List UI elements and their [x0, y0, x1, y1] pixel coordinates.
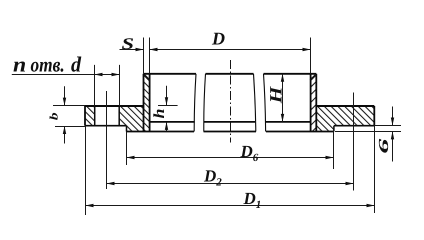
hub top-left corner tick: [144, 75, 150, 81]
break line 1a: [194, 74, 196, 132]
extension lines D1: [86, 126, 375, 215]
svg-text:S: S: [122, 36, 135, 53]
extension lines S/D above hub: [144, 38, 311, 74]
center line (axis): [230, 60, 232, 143]
svg-text:отв.: отв.: [31, 53, 65, 76]
extension lines b left: [53, 106, 85, 127]
break line 2a: [254, 74, 256, 132]
dimension line S: [120, 49, 144, 51]
wire: left boss step: [126, 126, 128, 132]
wire: rim bottom surfaces: [85, 125, 374, 127]
break line 1b: [204, 74, 206, 132]
hatched section: right flange + boss: [316, 106, 374, 131]
svg-text:D: D: [211, 29, 225, 49]
svg-text:n: n: [13, 53, 26, 77]
svg-text:6: 6: [377, 138, 392, 154]
break line 2b: [264, 74, 266, 132]
bolt hole axis left (D2 extension): [106, 91, 108, 189]
wire: hub left outer wall: [143, 74, 145, 132]
dimension line b: [64, 86, 66, 143]
dimension line D: [150, 49, 311, 51]
dimension line H: [282, 74, 284, 122]
extension lines 6 right: [335, 126, 401, 132]
extension line h: [158, 105, 178, 107]
wire: hub right outer wall: [315, 74, 317, 132]
bolt hole axis right (D2 extension): [353, 93, 355, 191]
extension lines D6: [127, 131, 334, 169]
wire: right boss step: [333, 126, 335, 132]
hub top-right corner tick: [310, 75, 316, 81]
wire: right flange outer edge: [373, 106, 375, 126]
svg-text:b: b: [47, 112, 60, 120]
extension lines bolt hole d: [95, 65, 120, 106]
dimension line n otv d: [12, 74, 120, 76]
wire: bolt hole right edge: [118, 106, 120, 126]
wire: bolt hole left edge: [94, 106, 96, 126]
wire: interior bottom line: [150, 121, 311, 123]
hatched section: right hub wall: [311, 74, 317, 132]
svg-text:H: H: [266, 86, 285, 105]
svg-text:D1: D1: [243, 189, 262, 211]
svg-text:D6: D6: [240, 142, 259, 164]
dimension line D1: [86, 205, 375, 207]
dimension line D2: [107, 183, 354, 185]
hatched section: left rim: [85, 106, 95, 126]
wire: hub top edge: [144, 73, 317, 75]
hatched section: left flange + hub wall + boss: [119, 74, 149, 132]
wire: left flange outer edge: [84, 106, 86, 126]
dimension line D6: [127, 157, 334, 159]
svg-text:h: h: [152, 108, 169, 118]
wire: hub right inner wall: [310, 74, 312, 132]
wire: flange top surfaces: [85, 105, 374, 107]
wire: hub left inner wall: [149, 74, 151, 132]
svg-text:d: d: [71, 52, 82, 76]
svg-text:D2: D2: [203, 167, 222, 189]
wire: boss bottom line: [127, 131, 334, 133]
dimension line 6: [392, 107, 394, 162]
dimension line h: [166, 86, 168, 132]
